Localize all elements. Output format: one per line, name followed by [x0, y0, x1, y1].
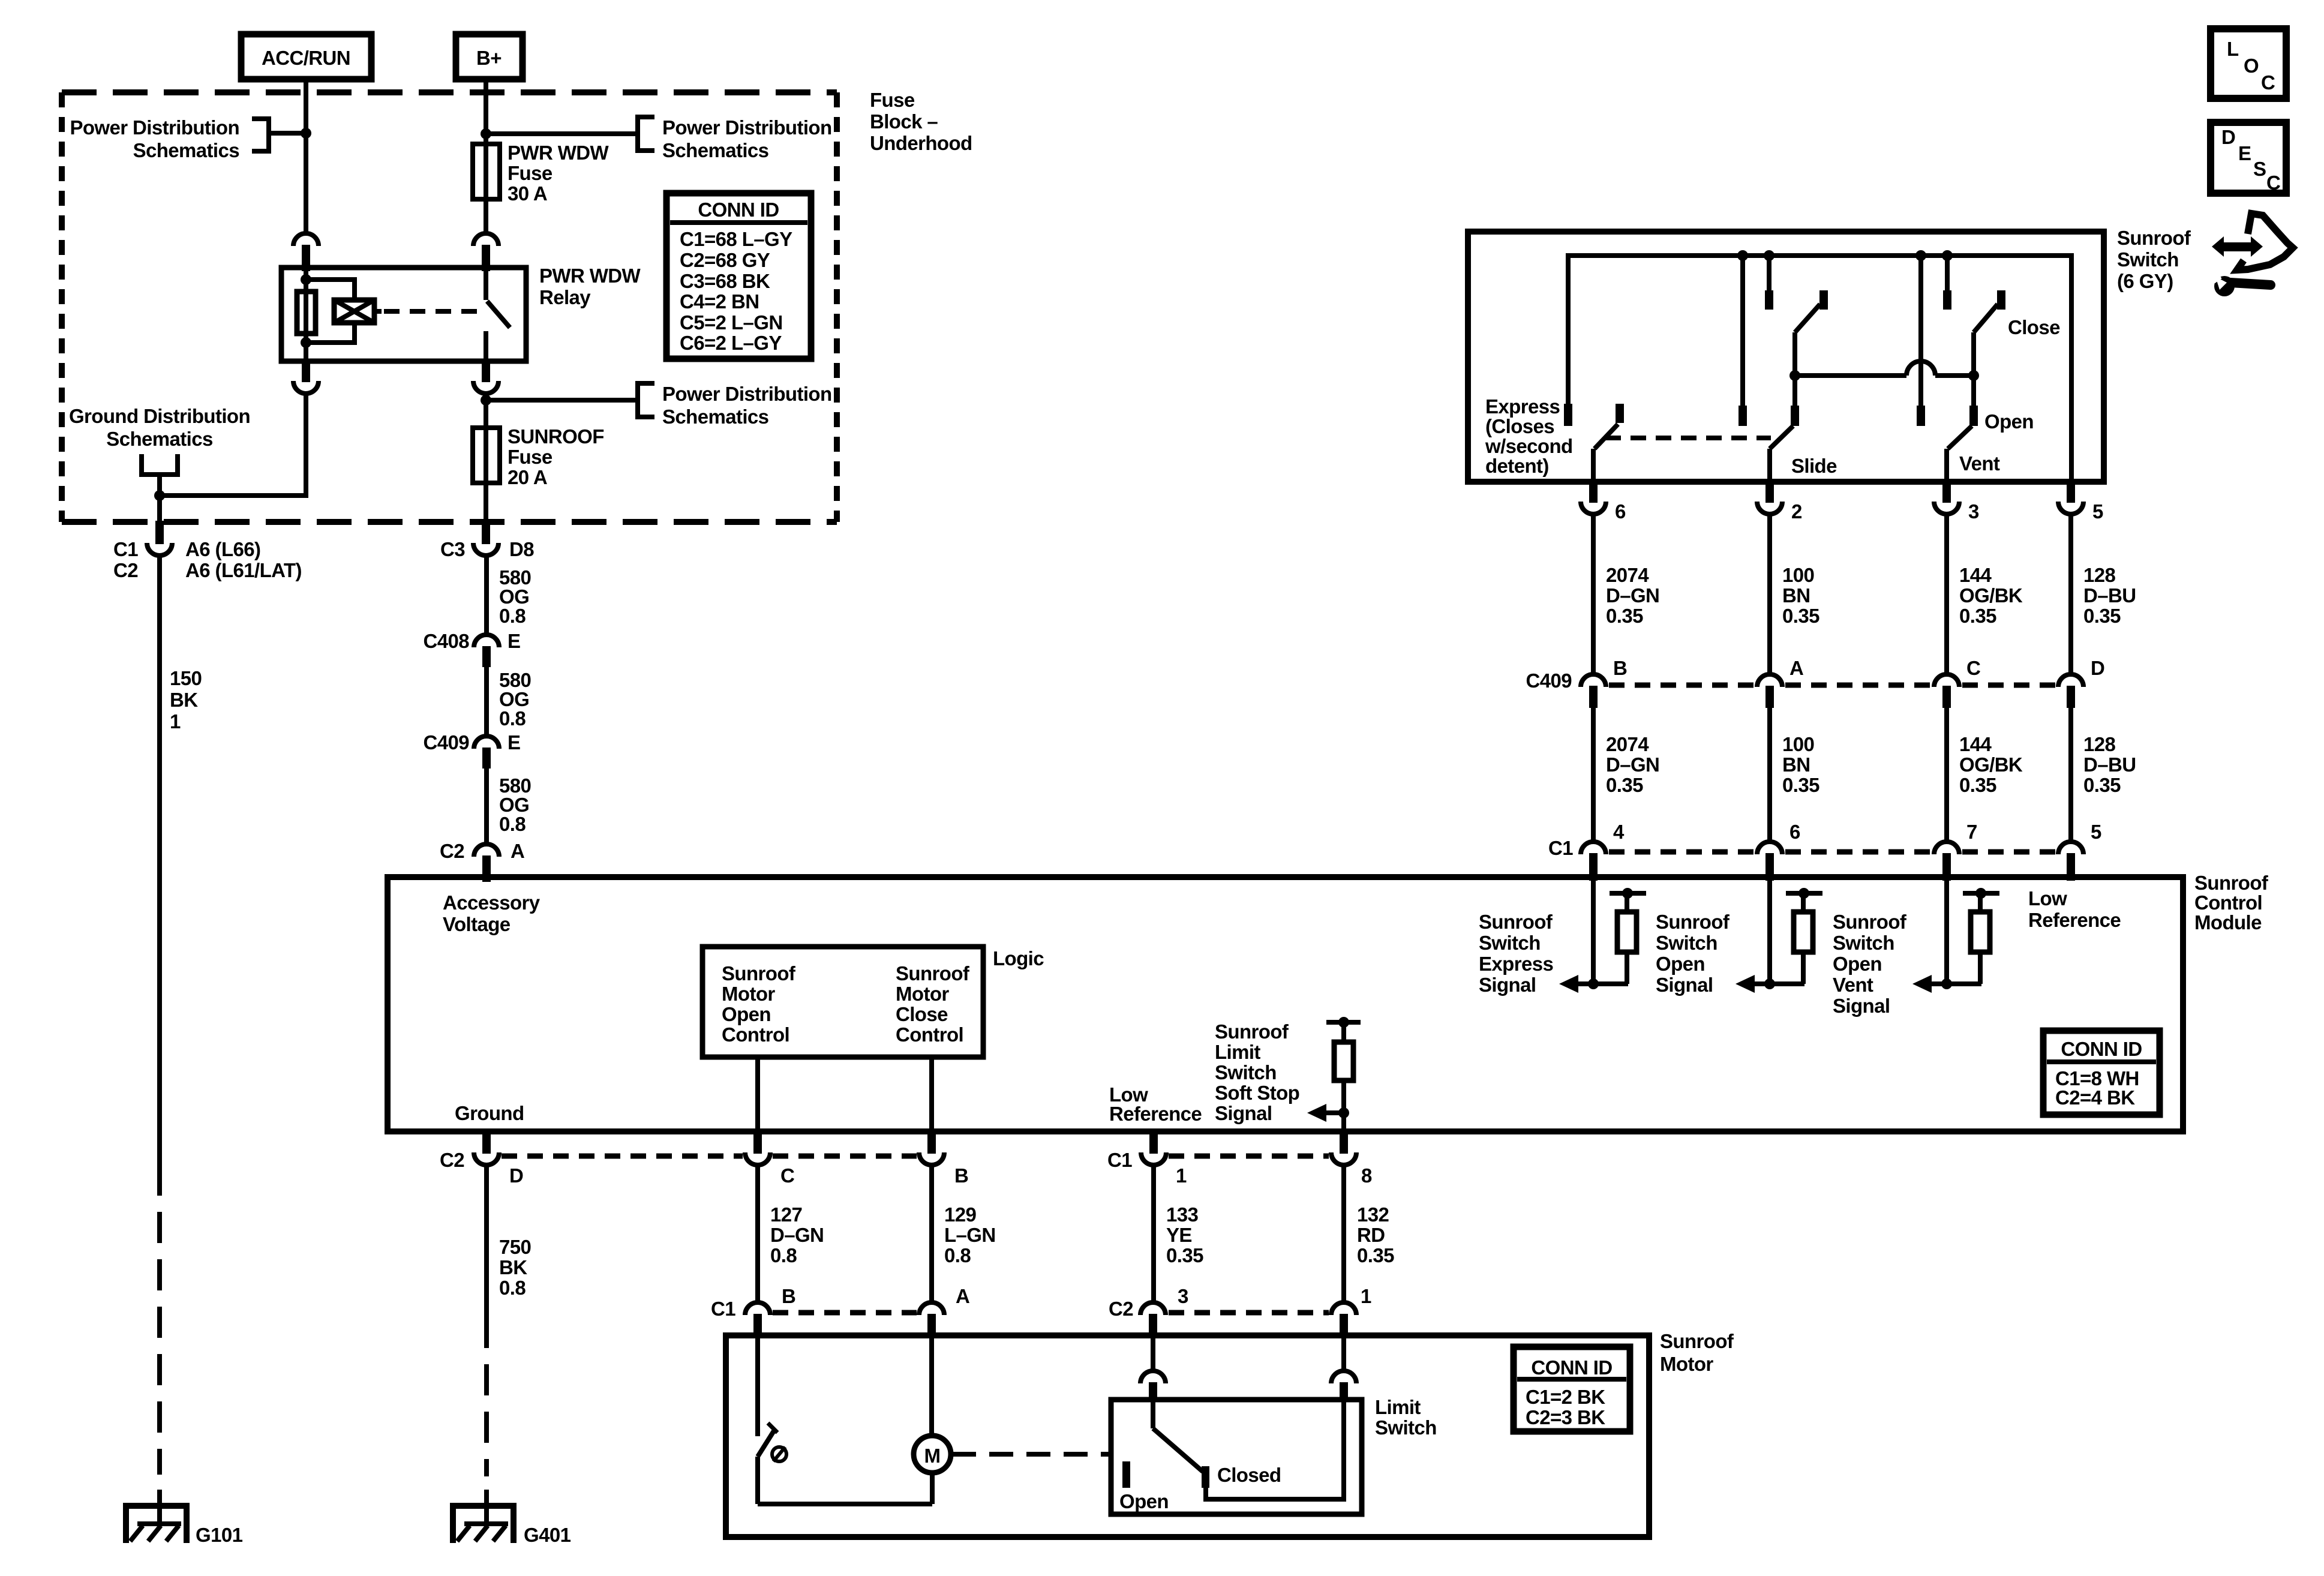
svg-text:20 A: 20 A — [508, 466, 547, 488]
wire logic open control output — [755, 1057, 760, 1131]
connector C2 pin A accessory voltage — [440, 840, 524, 882]
svg-text:Limit: Limit — [1375, 1396, 1421, 1418]
svg-text:Open: Open — [1119, 1490, 1169, 1512]
svg-text:D8: D8 — [509, 538, 534, 560]
svg-text:Closed: Closed — [1217, 1464, 1281, 1486]
svg-text:Slide: Slide — [1791, 455, 1837, 477]
svg-text:A: A — [1789, 657, 1803, 679]
svg-text:Fuse: Fuse — [870, 89, 915, 111]
connector C1 pin 4 — [1581, 821, 1625, 881]
svg-text:C2: C2 — [1109, 1298, 1133, 1320]
svg-text:C1=68 L–GY: C1=68 L–GY — [680, 228, 792, 250]
svg-text:Limit: Limit — [1215, 1041, 1260, 1063]
connector C409 pin D — [2058, 657, 2104, 708]
node junction above SUNROOF fuse — [481, 395, 491, 406]
table CONN ID fuse block — [666, 193, 811, 359]
node rail junction slide-left — [1737, 250, 1748, 261]
svg-text:E: E — [2238, 142, 2251, 164]
svg-text:S: S — [2253, 158, 2266, 180]
svg-text:YE: YE — [1166, 1224, 1192, 1246]
svg-text:0.35: 0.35 — [2083, 774, 2121, 796]
svg-text:C408: C408 — [424, 630, 470, 652]
svg-text:Schematics: Schematics — [106, 428, 212, 450]
svg-text:3: 3 — [1968, 500, 1979, 523]
svg-text:Power Distribution: Power Distribution — [662, 116, 832, 139]
svg-text:0.35: 0.35 — [1782, 774, 1819, 796]
table CONN ID module — [2043, 1031, 2160, 1115]
node ground distribution junction — [154, 490, 165, 501]
svg-text:Underhood: Underhood — [870, 132, 972, 154]
pull-up resistor — [1786, 888, 1822, 984]
svg-text:PWR WDW: PWR WDW — [539, 265, 641, 287]
svg-text:BK: BK — [170, 689, 198, 711]
svg-text:C1=2 BK: C1=2 BK — [1526, 1386, 1605, 1408]
svg-text:Signal: Signal — [1833, 995, 1890, 1017]
svg-text:0.8: 0.8 — [499, 1277, 526, 1299]
svg-text:6: 6 — [1789, 821, 1800, 843]
label Sunroof Motor Close Control — [896, 962, 970, 1046]
svg-text:Control: Control — [896, 1023, 963, 1046]
sunroof switch box — [1468, 232, 2104, 482]
wire 128 D–BU 0.35 to module pin — [2071, 707, 2136, 842]
svg-text:144: 144 — [1959, 733, 1992, 755]
connector C2 pin 3 (motor) — [1109, 1285, 1188, 1337]
wire 2074 D–GN 0.35 from switch pin 6 — [1593, 514, 1659, 674]
vent moving contact pin and blade — [1947, 376, 1978, 482]
svg-text:C: C — [2261, 71, 2275, 94]
connector C1 row dashed body (module bottom) — [1169, 1154, 1329, 1159]
svg-text:Signal: Signal — [1656, 974, 1713, 996]
wire closed contact to pin 1 — [1206, 1402, 1344, 1499]
svg-text:Switch: Switch — [1656, 932, 1718, 954]
svg-text:0.8: 0.8 — [944, 1244, 971, 1266]
svg-text:C2: C2 — [440, 840, 464, 862]
connector C2 pin D ground output — [440, 1130, 523, 1187]
svg-text:Logic: Logic — [993, 947, 1044, 969]
svg-text:Sunroof: Sunroof — [2194, 872, 2269, 894]
express moving contact and blade — [1593, 404, 1624, 482]
signal arrow — [1736, 975, 1804, 993]
svg-text:C2: C2 — [440, 1149, 464, 1171]
svg-text:B: B — [954, 1164, 968, 1187]
svg-text:Express: Express — [1479, 953, 1553, 975]
svg-text:Sunroof: Sunroof — [896, 962, 970, 984]
wire ground feed crossing fuse block edge — [157, 496, 162, 522]
wire 129 L-GN 0.8 — [932, 1165, 996, 1302]
connector pin at relay terminal (B+ side) — [473, 233, 499, 246]
svg-text:Power Distribution: Power Distribution — [70, 116, 239, 139]
svg-text:0.35: 0.35 — [1166, 1244, 1203, 1266]
wire soft stop into motor — [1341, 1335, 1346, 1371]
wire slide-close crossover with hop — [1795, 361, 1974, 376]
wire 580 OG 0.8 segment 3 — [487, 769, 531, 844]
svg-text:D: D — [2221, 126, 2235, 148]
sunroof motor box — [726, 1335, 1649, 1537]
svg-text:0.35: 0.35 — [2083, 605, 2121, 627]
svg-text:1: 1 — [1176, 1164, 1187, 1187]
wire 127 D-GN 0.8 — [758, 1165, 824, 1302]
svg-text:D: D — [2091, 657, 2104, 679]
svg-text:B: B — [782, 1285, 795, 1307]
node signal junction — [1764, 978, 1775, 989]
label Low Reference (right) — [2028, 887, 2121, 931]
svg-text:RD: RD — [1357, 1224, 1385, 1246]
slide moving contact pin and blade — [1770, 376, 1799, 482]
wire to power distribution reference (top right) — [486, 131, 638, 136]
svg-text:0.8: 0.8 — [499, 707, 526, 730]
svg-text:Motor: Motor — [1660, 1353, 1713, 1375]
svg-text:O: O — [2244, 55, 2259, 77]
svg-text:ACC/RUN: ACC/RUN — [262, 47, 350, 69]
switch common rail wire — [1568, 256, 2071, 482]
connector switch pin 3 — [1934, 480, 1979, 523]
svg-text:BN: BN — [1782, 754, 1810, 776]
label Sunroof Control Module — [2194, 872, 2269, 933]
wire switch signal input — [1591, 877, 1596, 984]
label Sunroof Limit Switch Soft Stop Signal — [1215, 1020, 1299, 1124]
svg-text:SUNROOF: SUNROOF — [508, 425, 604, 448]
svg-text:C2: C2 — [113, 559, 138, 581]
fuse PWR WDW 30 A — [473, 142, 609, 233]
wire 144 OG/BK 0.35 to module pin — [1947, 707, 2023, 842]
svg-text:G401: G401 — [524, 1524, 571, 1546]
svg-text:Close: Close — [896, 1003, 948, 1025]
relay solenoid X-box — [334, 300, 382, 323]
wire 580 OG 0.8 segment 2 — [487, 667, 531, 736]
wire 100 BN 0.35 from switch pin 2 — [1770, 514, 1819, 674]
svg-text:Sunroof: Sunroof — [1215, 1020, 1289, 1043]
reference bracket Ground Distribution Schematics — [69, 405, 250, 496]
connector at limit switch (soft stop) — [1331, 1371, 1356, 1383]
svg-text:7: 7 — [1966, 821, 1977, 843]
svg-text:0.35: 0.35 — [1959, 774, 1996, 796]
label Sunroof Motor — [1660, 1330, 1734, 1375]
node signal junction — [1941, 978, 1952, 989]
svg-text:Ground: Ground — [455, 1102, 524, 1124]
label Fuse Block - Underhood — [870, 89, 972, 154]
svg-text:Block –: Block – — [870, 110, 938, 133]
wire 580 OG 0.8 segment 1 — [487, 556, 531, 635]
connector C1 pin 6 — [1757, 821, 1800, 881]
wire 2074 D–GN 0.35 to module pin — [1593, 707, 1659, 842]
connector C1 pin 5 — [2058, 821, 2101, 881]
svg-text:A: A — [956, 1285, 969, 1307]
svg-text:detent): detent) — [1485, 455, 1549, 477]
sunroof control module box — [388, 877, 2183, 1131]
svg-text:C4=2 BN: C4=2 BN — [680, 290, 759, 313]
svg-text:0.35: 0.35 — [1606, 774, 1643, 796]
connector C409 pin E — [424, 731, 521, 769]
svg-text:M: M — [924, 1445, 941, 1467]
connector at limit switch (low reference) — [1140, 1371, 1166, 1383]
svg-text:Motor: Motor — [722, 983, 775, 1005]
pull-up resistor — [1610, 888, 1646, 984]
relay coil resistor — [297, 292, 316, 334]
node junction on ACC feed — [301, 128, 311, 139]
svg-text:Sunroof: Sunroof — [1656, 911, 1730, 933]
svg-text:BK: BK — [499, 1256, 527, 1278]
svg-text:144: 144 — [1959, 564, 1992, 586]
svg-text:132: 132 — [1357, 1203, 1389, 1226]
node rail junction close-upper — [1942, 250, 1953, 261]
svg-text:Reference: Reference — [1109, 1103, 1202, 1125]
connector C1 row dashed body — [1609, 849, 2055, 855]
label Low Reference (middle) — [1109, 1083, 1202, 1125]
svg-text:Sunroof: Sunroof — [1660, 1330, 1734, 1352]
svg-text:0.8: 0.8 — [499, 605, 526, 627]
relay PWR WDW Relay — [281, 265, 641, 361]
svg-text:3: 3 — [1178, 1285, 1188, 1307]
svg-text:128: 128 — [2083, 733, 2116, 755]
connector C1 pin 7 — [1934, 821, 1977, 881]
svg-text:Reference: Reference — [2028, 909, 2121, 931]
label Sunroof Switch Open Vent Signal — [1833, 911, 1907, 1017]
ground G401 — [451, 1503, 571, 1546]
svg-text:(Closes: (Closes — [1485, 415, 1554, 437]
fuse SUNROOF 20 A — [473, 425, 604, 488]
LOC reference box — [2211, 29, 2286, 98]
svg-text:D–GN: D–GN — [1606, 754, 1659, 776]
reference bracket Power Distribution Schematics (top right) — [638, 116, 832, 161]
svg-text:129: 129 — [944, 1203, 977, 1226]
svg-text:Signal: Signal — [1479, 974, 1536, 996]
svg-text:Motor: Motor — [896, 983, 949, 1005]
label Sunroof Switch (6 GY) — [2117, 227, 2191, 292]
svg-text:A6 (L61/LAT): A6 (L61/LAT) — [185, 559, 302, 581]
svg-text:E: E — [508, 630, 520, 652]
svg-text:Express: Express — [1485, 395, 1560, 418]
svg-text:Accessory: Accessory — [443, 891, 541, 914]
node soft stop junction — [1338, 1107, 1349, 1118]
wire 100 BN 0.35 to module pin — [1770, 707, 1819, 842]
connector C2 row dashed body (motor) — [1169, 1310, 1329, 1316]
label Accessory Voltage — [443, 891, 541, 935]
svg-text:C1: C1 — [711, 1298, 735, 1320]
svg-text:750: 750 — [499, 1236, 531, 1258]
wire to power distribution reference — [271, 131, 306, 136]
svg-text:0.35: 0.35 — [1782, 605, 1819, 627]
DESC reference box — [2211, 122, 2286, 194]
connector C3 sunroof feed — [440, 521, 534, 560]
svg-text:128: 128 — [2083, 564, 2116, 586]
wire 133 YE 0.35 — [1154, 1165, 1203, 1302]
svg-text:Vent: Vent — [1833, 974, 1873, 996]
svg-text:C5=2 L–GN: C5=2 L–GN — [680, 311, 783, 334]
express fixed contact pin — [1564, 404, 1572, 426]
power feed box B+ — [456, 34, 523, 79]
close upper fixed contact wire and pin — [1943, 256, 1951, 310]
svg-text:Control: Control — [722, 1023, 789, 1046]
svg-text:Vent: Vent — [1959, 452, 2000, 475]
svg-text:0.35: 0.35 — [1357, 1244, 1394, 1266]
wire 150 BK 1 to G101 — [160, 556, 202, 1524]
reference bracket Power Distribution Schematics (lower right) — [638, 383, 832, 428]
svg-text:C1: C1 — [1548, 837, 1573, 859]
soft stop pull-up resistor — [1326, 1017, 1361, 1131]
motor-limit switch mechanical dashed link — [952, 1452, 1110, 1457]
svg-text:150: 150 — [170, 667, 202, 689]
node rail junction vent-left — [1915, 250, 1926, 261]
slide left fixed contact wire and pin — [1739, 256, 1747, 426]
label Limit Switch — [1375, 1396, 1437, 1439]
svg-text:Voltage: Voltage — [443, 913, 511, 935]
vent left fixed contact wire and pin — [1917, 256, 1925, 426]
wire switch signal input — [1767, 877, 1772, 984]
logic box — [702, 947, 1044, 1057]
svg-text:C409: C409 — [1526, 670, 1572, 692]
relay coil branch — [301, 270, 355, 361]
connector C2 row dashed body (module bottom) — [502, 1154, 917, 1159]
svg-text:C: C — [1966, 657, 1980, 679]
label Sunroof Switch Express Signal — [1479, 911, 1553, 996]
svg-text:C2=4 BK: C2=4 BK — [2055, 1086, 2135, 1109]
svg-text:D–GN: D–GN — [1606, 584, 1659, 607]
slide upper fixed contact wire and pin — [1765, 256, 1773, 310]
limit switch blade — [1153, 1402, 1203, 1472]
svg-text:Schematics: Schematics — [662, 406, 768, 428]
svg-text:C409: C409 — [424, 731, 470, 754]
wire logic close control output — [929, 1057, 934, 1131]
svg-text:L: L — [2227, 38, 2239, 60]
svg-text:D–BU: D–BU — [2083, 584, 2136, 607]
wire ACC/RUN feed — [304, 79, 308, 233]
connector C2 pin C open control — [745, 1130, 794, 1187]
svg-text:w/second: w/second — [1485, 435, 1573, 457]
svg-text:Open: Open — [1656, 953, 1705, 975]
connector at relay output (left) — [302, 360, 310, 382]
limit switch box — [1111, 1400, 1362, 1514]
svg-text:Switch: Switch — [1479, 932, 1541, 954]
wire switch signal input — [1944, 877, 1949, 984]
connector C408 pin E — [424, 630, 521, 667]
svg-text:0.35: 0.35 — [1606, 605, 1643, 627]
wire relay output to ground distribution node — [160, 394, 306, 496]
svg-text:Schematics: Schematics — [133, 139, 239, 161]
svg-text:30 A: 30 A — [508, 182, 547, 205]
connector switch pin 2 — [1757, 480, 1802, 523]
svg-text:C: C — [2266, 172, 2280, 194]
svg-text:Switch: Switch — [1215, 1061, 1277, 1083]
svg-text:0.35: 0.35 — [1959, 605, 1996, 627]
soft stop signal arrow — [1307, 1104, 1344, 1122]
svg-text:6: 6 — [1615, 500, 1626, 523]
svg-text:G101: G101 — [196, 1524, 243, 1546]
connector at relay output (right) — [482, 360, 490, 382]
wire 128 D–BU 0.35 from switch pin 5 — [2071, 514, 2136, 674]
svg-text:C1: C1 — [1107, 1149, 1132, 1171]
svg-text:(6 GY): (6 GY) — [2117, 270, 2173, 292]
svg-text:OG/BK: OG/BK — [1959, 584, 2023, 607]
wire 144 OG/BK 0.35 from switch pin 3 — [1947, 514, 2023, 674]
svg-text:0.8: 0.8 — [770, 1244, 797, 1266]
wire low reference into motor — [1151, 1335, 1155, 1371]
motor internal switch — [758, 1335, 777, 1504]
svg-text:Soft Stop: Soft Stop — [1215, 1082, 1299, 1104]
svg-text:Sunroof: Sunroof — [722, 962, 796, 984]
svg-text:Fuse: Fuse — [508, 446, 553, 468]
wire 750 BK 0.8 to G401 — [487, 1165, 531, 1524]
svg-text:Fuse: Fuse — [508, 162, 553, 184]
svg-text:Sunroof: Sunroof — [2117, 227, 2191, 249]
svg-text:E: E — [508, 731, 520, 754]
svg-text:2074: 2074 — [1606, 733, 1649, 755]
limit switch Closed contact — [1202, 1464, 1281, 1488]
signal arrow — [1912, 975, 1981, 993]
svg-text:OG/BK: OG/BK — [1959, 754, 2023, 776]
service icon hand with arrow and wrench — [2211, 214, 2293, 296]
svg-text:L–GN: L–GN — [944, 1224, 996, 1246]
express-slide mechanical dashed link — [1605, 436, 1771, 440]
svg-text:C: C — [780, 1164, 794, 1187]
svg-text:100: 100 — [1782, 733, 1814, 755]
pull-up resistor — [1963, 888, 1999, 984]
svg-text:B+: B+ — [476, 47, 502, 69]
fuse block - underhood dashed border — [62, 89, 837, 95]
connector C409 pin C — [1934, 657, 1980, 708]
svg-text:5: 5 — [2091, 821, 2101, 843]
table CONN ID motor — [1514, 1347, 1630, 1431]
ground G101 — [124, 1503, 243, 1546]
reference bracket Power Distribution Schematics (left) — [70, 116, 269, 161]
svg-text:A: A — [511, 840, 524, 862]
svg-text:PWR WDW: PWR WDW — [508, 142, 609, 164]
node junction on B+ feed — [481, 128, 491, 139]
svg-text:4: 4 — [1613, 821, 1625, 843]
connector C1 pin B (motor) — [711, 1285, 795, 1337]
svg-text:Close: Close — [2008, 316, 2060, 338]
relay actuation dashed link — [384, 309, 485, 314]
svg-text:CONN ID: CONN ID — [2061, 1038, 2142, 1060]
svg-text:1: 1 — [170, 710, 181, 733]
close moving contact and blade — [1974, 290, 2005, 376]
svg-text:2074: 2074 — [1606, 564, 1649, 586]
svg-text:Power Distribution: Power Distribution — [662, 383, 832, 405]
relay switch contact — [486, 268, 510, 361]
svg-text:133: 133 — [1166, 1203, 1199, 1226]
connector C1 pin 1 low reference — [1107, 1130, 1187, 1187]
svg-text:Open: Open — [1833, 953, 1882, 975]
svg-text:Open: Open — [1984, 410, 2034, 433]
svg-text:Ground Distribution: Ground Distribution — [69, 405, 250, 427]
svg-text:Control: Control — [2194, 891, 2262, 914]
connector switch pin 5 — [2058, 480, 2103, 523]
connector C1 pin A (motor) — [919, 1285, 969, 1337]
svg-text:BN: BN — [1782, 584, 1810, 607]
svg-text:5: 5 — [2092, 500, 2103, 523]
svg-text:100: 100 — [1782, 564, 1814, 586]
svg-text:D–GN: D–GN — [770, 1224, 824, 1246]
node close mid junction — [1968, 370, 1979, 381]
svg-text:127: 127 — [770, 1203, 802, 1226]
connector switch pin 6 — [1581, 480, 1626, 523]
connector C409 row dashed body — [1609, 683, 2055, 688]
slide second-stage contact and blade — [1795, 290, 1828, 376]
signal arrow — [1559, 975, 1628, 993]
limit switch Open contact — [1119, 1461, 1169, 1512]
svg-text:Sunroof: Sunroof — [1479, 911, 1553, 933]
connector C1 pin 8 soft stop — [1331, 1130, 1372, 1187]
svg-text:C6=2 L–GY: C6=2 L–GY — [680, 332, 782, 354]
svg-text:Switch: Switch — [1375, 1416, 1437, 1439]
svg-text:C3=68 BK: C3=68 BK — [680, 270, 770, 292]
wire close control into motor — [929, 1335, 934, 1436]
svg-text:Module: Module — [2194, 911, 2262, 933]
connector C1 C2 ground feed — [113, 521, 302, 581]
wire low reference pin 5 — [2068, 875, 2073, 879]
svg-text:C2=68 GY: C2=68 GY — [680, 249, 770, 271]
svg-text:Low: Low — [2028, 887, 2067, 909]
svg-text:CONN ID: CONN ID — [698, 199, 779, 221]
